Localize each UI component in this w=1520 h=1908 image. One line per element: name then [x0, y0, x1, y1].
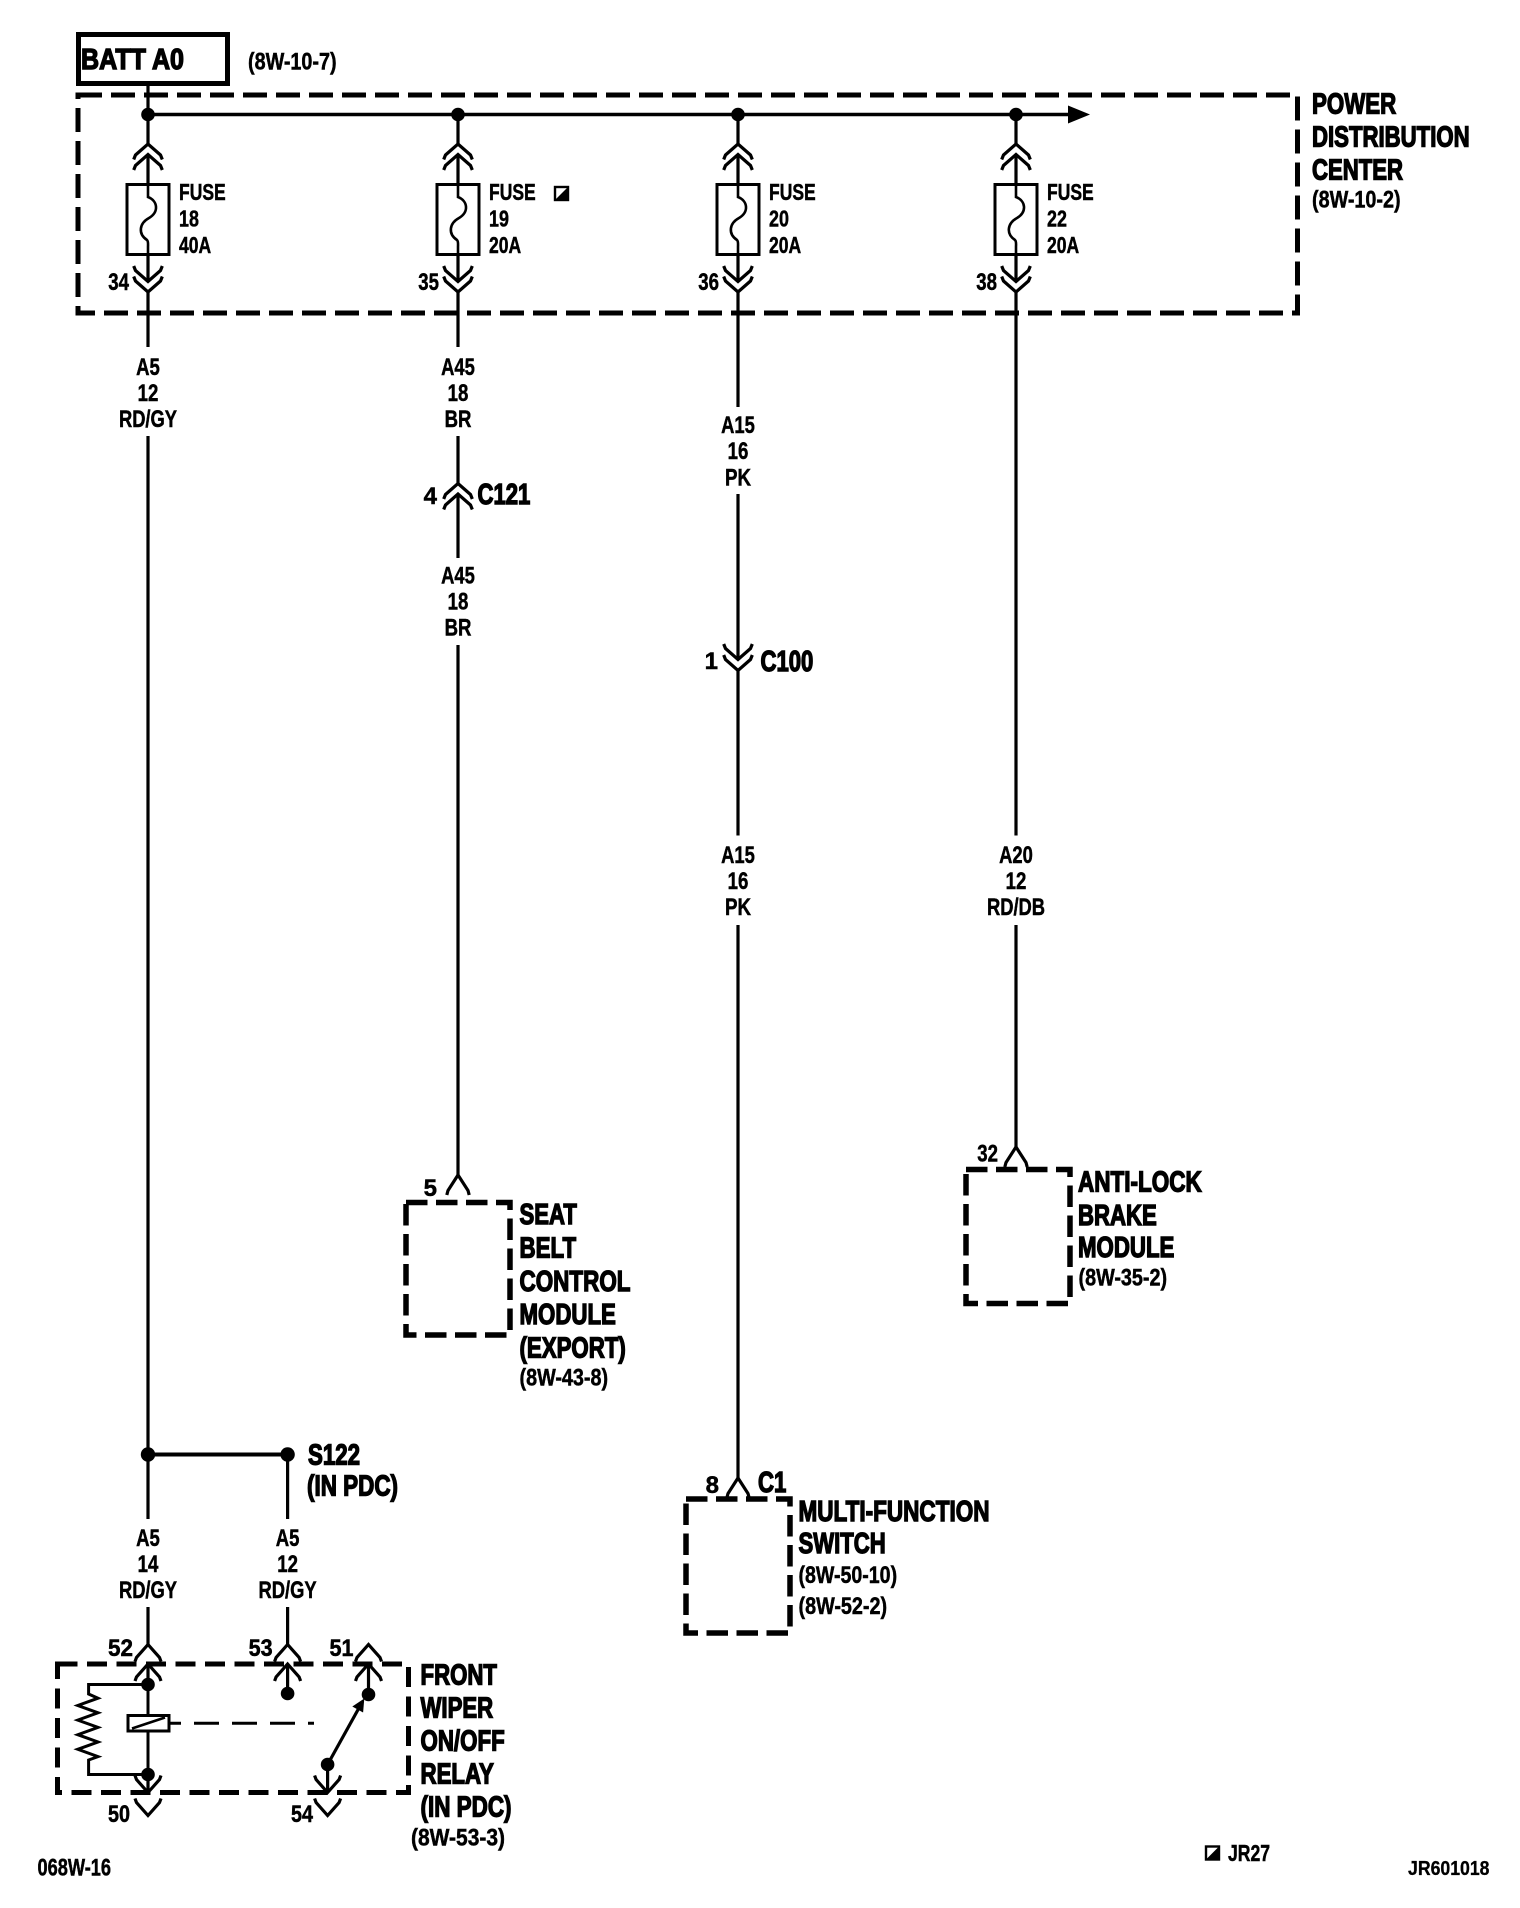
pin 50 chevron inside relay — [135, 1776, 161, 1793]
wire: bus to fuse 19 connector — [456, 115, 459, 145]
SEAT BELT CONTROL MODULE label — [520, 1199, 631, 1392]
pin 53 chevron inside relay — [275, 1664, 301, 1681]
svg-text:CENTER: CENTER — [1312, 155, 1403, 187]
resistor across relay coil — [78, 1685, 142, 1775]
svg-text:12: 12 — [277, 1551, 298, 1578]
svg-text:C100: C100 — [761, 646, 814, 678]
svg-text:RD/GY: RD/GY — [119, 1577, 177, 1604]
wire: label to pin 52 — [146, 1607, 149, 1645]
pin 51 terminal chevron (outside) — [356, 1645, 382, 1662]
svg-text:54: 54 — [291, 1801, 314, 1828]
svg-text:36: 36 — [698, 269, 719, 296]
svg-text:19: 19 — [489, 206, 509, 232]
splice S122 — [141, 1440, 398, 1503]
svg-text:12: 12 — [1006, 868, 1027, 895]
power distribution center dashed box — [78, 95, 1298, 313]
svg-text:BR: BR — [445, 406, 472, 433]
wire: connector to fuse 19 — [456, 155, 459, 186]
svg-text:POWER: POWER — [1312, 89, 1396, 121]
node: bus junction branch 4 — [1009, 108, 1023, 122]
pin 32 terminal chevron — [1005, 1147, 1027, 1167]
POWER DISTRIBUTION CENTER label — [1312, 89, 1470, 214]
wire: label to connector C100 — [736, 494, 739, 660]
node: relay coil bottom — [141, 1768, 155, 1782]
wire: down to seat belt control module — [456, 645, 459, 1175]
svg-text:S122: S122 — [308, 1440, 360, 1472]
connector chevrons above fuse 22 — [1002, 144, 1031, 170]
svg-text:20A: 20A — [489, 232, 521, 258]
wire: contact to pin 54 — [326, 1765, 329, 1793]
seat belt control module dashed box — [406, 1203, 510, 1336]
svg-text:SWITCH: SWITCH — [799, 1528, 886, 1560]
FRONT WIPER ON/OFF RELAY label — [411, 1660, 512, 1852]
wire: fuse 18 to pin 34 — [146, 255, 149, 282]
svg-text:(8W-43-8): (8W-43-8) — [520, 1365, 609, 1392]
svg-text:22: 22 — [1047, 206, 1067, 232]
svg-text:32: 32 — [977, 1141, 998, 1168]
wire: BATT A0 to bus — [146, 84, 149, 115]
svg-text:PK: PK — [725, 465, 752, 492]
option marker at fuse 19 — [555, 187, 568, 200]
svg-text:40A: 40A — [179, 232, 211, 258]
wire: splice to relay pin 52 side — [146, 1455, 149, 1520]
svg-text:53: 53 — [249, 1635, 273, 1662]
MULTI-FUNCTION SWITCH label — [799, 1496, 990, 1620]
svg-text:RD/GY: RD/GY — [119, 406, 177, 433]
svg-text:A15: A15 — [721, 412, 755, 439]
wire: bus to fuse 20 connector — [736, 115, 739, 145]
wire label A15 16 PK (lower) — [721, 842, 755, 921]
svg-text:FUSE: FUSE — [179, 179, 226, 205]
svg-text:A5: A5 — [136, 1525, 160, 1552]
wire: connector to fuse 22 — [1014, 155, 1017, 186]
svg-text:A20: A20 — [999, 842, 1033, 869]
svg-text:(8W-35-2): (8W-35-2) — [1079, 1265, 1168, 1292]
pin 35 connector chevrons — [444, 266, 473, 292]
svg-text:BATT A0: BATT A0 — [81, 44, 184, 76]
multi-function switch dashed box — [686, 1499, 790, 1633]
node: switch fixed contact 51 — [362, 1688, 376, 1702]
svg-text:FUSE: FUSE — [1047, 179, 1094, 205]
svg-text:DISTRIBUTION: DISTRIBUTION — [1312, 122, 1470, 154]
node: bus junction branch 2 — [451, 108, 465, 122]
svg-text:ON/OFF: ON/OFF — [421, 1726, 505, 1758]
svg-text:18: 18 — [448, 380, 469, 407]
pin 52 chevron inside relay — [135, 1664, 161, 1681]
pin 5 terminal chevron — [447, 1175, 469, 1195]
wire: connector to fuse 20 — [736, 155, 739, 186]
fuse 18 — [127, 179, 226, 258]
svg-text:MULTI-FUNCTION: MULTI-FUNCTION — [799, 1496, 990, 1528]
svg-text:20A: 20A — [769, 232, 801, 258]
svg-text:35: 35 — [418, 269, 439, 296]
pin 8 terminal chevron — [727, 1478, 749, 1498]
svg-text:FUSE: FUSE — [769, 179, 816, 205]
wire: pin 51 to switch contact — [367, 1664, 370, 1695]
svg-text:18: 18 — [448, 589, 469, 616]
wire: splice to relay pin 53 side — [286, 1455, 289, 1520]
svg-text:50: 50 — [108, 1801, 130, 1828]
connector chevrons above fuse 20 — [724, 144, 753, 170]
pin 51 chevron inside relay — [356, 1664, 382, 1681]
svg-text:ANTI-LOCK: ANTI-LOCK — [1078, 1167, 1202, 1199]
svg-text:JR27: JR27 — [1228, 1840, 1270, 1866]
wire: bus to fuse 22 connector — [1014, 115, 1017, 145]
svg-text:A15: A15 — [721, 842, 755, 869]
wire: fuse 22 to pin 38 — [1014, 255, 1017, 282]
pin 50 terminal chevron (outside) — [135, 1799, 161, 1816]
svg-text:(IN PDC): (IN PDC) — [307, 1471, 398, 1503]
svg-text:(8W-10-7): (8W-10-7) — [248, 49, 337, 76]
svg-text:12: 12 — [138, 380, 159, 407]
bus bar wire with arrow — [148, 106, 1090, 124]
svg-text:(8W-50-10): (8W-50-10) — [799, 1562, 898, 1589]
wire label A5 12 RD/GY (right) — [259, 1525, 317, 1604]
wire: C100 down — [736, 671, 739, 836]
svg-text:20: 20 — [769, 206, 789, 232]
svg-text:4: 4 — [424, 483, 438, 510]
mechanical link dashed line — [169, 1722, 314, 1725]
wire: pin 52 to coil node — [146, 1664, 149, 1685]
wire: connector to fuse 18 — [146, 155, 149, 186]
svg-text:BRAKE: BRAKE — [1078, 1200, 1157, 1232]
svg-text:(EXPORT): (EXPORT) — [520, 1333, 626, 1365]
svg-text:34: 34 — [108, 269, 129, 296]
node: bus junction branch 3 — [731, 108, 745, 122]
pin 38 connector chevrons — [1002, 266, 1031, 292]
node: relay coil top — [141, 1678, 155, 1692]
node: bus junction branch 1 — [141, 108, 155, 122]
pin 36 connector chevrons — [724, 266, 753, 292]
svg-text:068W-16: 068W-16 — [38, 1855, 112, 1882]
wire: down to anti-lock brake module — [1014, 925, 1017, 1147]
svg-text:A45: A45 — [441, 354, 475, 381]
wire: label to pin 53 — [286, 1607, 289, 1645]
svg-text:16: 16 — [728, 868, 749, 895]
fuse 22 — [995, 179, 1094, 258]
front wiper on/off relay dashed box — [58, 1664, 409, 1793]
svg-text:RELAY: RELAY — [421, 1759, 494, 1791]
svg-text:MODULE: MODULE — [520, 1299, 616, 1331]
svg-text:RD/DB: RD/DB — [987, 894, 1045, 921]
relay coil box — [128, 1716, 169, 1732]
wire: pin 38 down to label — [1014, 292, 1017, 836]
connector chevrons above fuse 18 — [134, 144, 163, 170]
svg-text:20A: 20A — [1047, 232, 1079, 258]
BATT A0 feed box — [79, 35, 228, 84]
wire: down to multi-function switch — [736, 925, 739, 1478]
wire label A45 18 BR (upper) — [441, 354, 475, 433]
fuse 20 — [717, 179, 816, 258]
wire: relay coil vertical — [147, 1685, 150, 1775]
wire: pin 53 stub — [286, 1664, 289, 1694]
svg-text:BR: BR — [445, 615, 472, 642]
wire: pin 36 through PDC edge — [736, 292, 739, 407]
connector chevrons above fuse 19 — [444, 144, 473, 170]
wire label A20 12 RD/DB — [987, 842, 1045, 921]
svg-text:CONTROL: CONTROL — [520, 1266, 631, 1298]
svg-text:BELT: BELT — [520, 1232, 577, 1264]
svg-text:FUSE: FUSE — [489, 179, 536, 205]
pin 34 connector chevrons — [134, 266, 163, 292]
fuse 19 — [437, 179, 536, 258]
svg-text:16: 16 — [728, 438, 749, 465]
pin 54 terminal chevron (outside) — [315, 1799, 341, 1816]
node: switch movable contact 54 — [321, 1758, 335, 1772]
svg-text:5: 5 — [424, 1175, 437, 1202]
svg-text:18: 18 — [179, 206, 199, 232]
svg-text:C121: C121 — [478, 479, 531, 511]
wire: A5 down to splice S122 — [146, 436, 149, 1455]
wire label A15 16 PK (upper) — [721, 412, 755, 492]
wire: bus to fuse 18 connector — [146, 115, 149, 145]
svg-text:51: 51 — [330, 1635, 354, 1662]
wire: label to connector C121 — [456, 436, 459, 484]
connector C121 chevrons — [444, 484, 473, 510]
svg-text:(8W-52-2): (8W-52-2) — [799, 1593, 888, 1620]
node: pin 53 stub end — [281, 1687, 295, 1701]
wire: pin 34 through PDC edge — [146, 292, 149, 347]
wire: C121 down — [456, 494, 459, 558]
pin 54 chevron inside relay — [315, 1776, 341, 1793]
wire label A5 12 RD/GY — [119, 354, 177, 433]
svg-text:1: 1 — [705, 648, 718, 675]
svg-text:SEAT: SEAT — [520, 1199, 578, 1231]
svg-text:JR601018: JR601018 — [1408, 1858, 1490, 1880]
wire: fuse 20 to pin 36 — [736, 255, 739, 282]
svg-text:MODULE: MODULE — [1078, 1232, 1174, 1264]
svg-text:14: 14 — [138, 1551, 159, 1578]
svg-text:FRONT: FRONT — [421, 1660, 498, 1692]
pin 52 terminal chevron (outside) — [135, 1645, 161, 1662]
wire: coil bottom to pin 50 — [146, 1775, 149, 1793]
svg-text:52: 52 — [108, 1635, 133, 1662]
wire label A45 18 BR (lower) — [441, 563, 475, 642]
svg-text:WIPER: WIPER — [421, 1693, 494, 1725]
svg-text:A45: A45 — [441, 563, 475, 590]
svg-text:(IN PDC): (IN PDC) — [421, 1792, 512, 1824]
svg-text:A5: A5 — [136, 354, 160, 381]
svg-text:RD/GY: RD/GY — [259, 1577, 317, 1604]
pin 53 terminal chevron (outside) — [275, 1645, 301, 1662]
connector C100 chevrons — [724, 644, 753, 671]
svg-text:C1: C1 — [758, 1467, 786, 1499]
svg-text:8: 8 — [706, 1472, 719, 1499]
wire label A5 14 RD/GY — [119, 1525, 177, 1604]
anti-lock brake module dashed box — [966, 1170, 1070, 1304]
wire: fuse 19 to pin 35 — [456, 255, 459, 282]
switch arm with arrowhead — [328, 1699, 365, 1765]
svg-text:(8W-53-3): (8W-53-3) — [411, 1825, 505, 1852]
svg-text:A5: A5 — [276, 1525, 300, 1552]
option marker legend — [1206, 1847, 1219, 1860]
svg-text:38: 38 — [976, 269, 997, 296]
svg-text:PK: PK — [725, 894, 752, 921]
ANTI-LOCK BRAKE MODULE label — [1078, 1167, 1202, 1292]
svg-text:(8W-10-2): (8W-10-2) — [1312, 187, 1401, 214]
wire: pin 35 through PDC edge — [456, 292, 459, 347]
